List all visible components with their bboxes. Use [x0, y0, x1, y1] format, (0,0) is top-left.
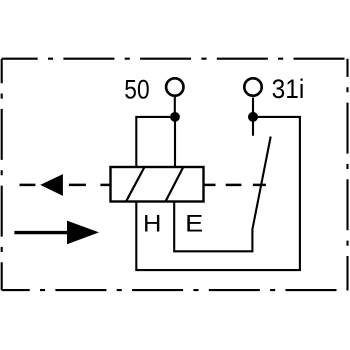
svg-text:E: E: [185, 211, 203, 238]
svg-text:50: 50: [124, 74, 149, 104]
svg-text:H: H: [143, 211, 161, 238]
svg-text:31i: 31i: [272, 74, 305, 104]
